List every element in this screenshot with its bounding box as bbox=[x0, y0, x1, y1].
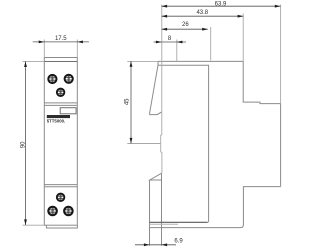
ext 43.8 right bbox=[242, 14, 244, 61]
side dark bottom line bbox=[150, 221, 208, 223]
arrow 43.8 right bbox=[238, 15, 244, 18]
front divider band lower bbox=[44, 185, 77, 187]
screw terminal top-middle bbox=[56, 88, 65, 96]
arrow 26 right bbox=[202, 28, 208, 31]
extension lines bbox=[23, 5, 281, 226]
ext 26 right bbox=[210, 27, 212, 61]
front view foot bbox=[46, 225, 77, 228]
screw terminal top-right bbox=[64, 74, 73, 83]
dim 8 line bbox=[154, 41, 187, 43]
side clip slider bbox=[150, 223, 179, 225]
arrow 63.9 left bbox=[162, 5, 168, 8]
SIEMENS label bar bbox=[47, 115, 70, 118]
front view body bbox=[44, 58, 77, 229]
svg-text:90: 90 bbox=[21, 141, 27, 148]
arrow 45 top bbox=[130, 61, 133, 67]
side right block top part bbox=[243, 61, 280, 104]
svg-text:26: 26 bbox=[182, 22, 189, 28]
ext 45 top bbox=[127, 60, 158, 62]
ext shared left / interior edge x=161.8 bbox=[161, 5, 162, 174]
arrow 17.5 right (outside, points left) bbox=[77, 41, 83, 44]
dim 17.5 line bbox=[33, 41, 89, 43]
dimension labels bbox=[21, 1, 227, 244]
svg-text:6.9: 6.9 bbox=[174, 239, 183, 245]
arrow 6.9 left (outside, points right) bbox=[144, 243, 150, 246]
side top edge bbox=[158, 60, 243, 62]
front divider band upper bbox=[44, 103, 77, 106]
svg-text:63.9: 63.9 bbox=[215, 1, 227, 7]
arrow 8 left (outside, points right) bbox=[156, 41, 162, 44]
svg-text:43.8: 43.8 bbox=[196, 10, 208, 16]
svg-text:17.5: 17.5 bbox=[55, 36, 67, 42]
arrow 90 top (inside, points up) bbox=[24, 61, 27, 67]
dim 6.9 line bbox=[135, 244, 176, 246]
screw terminal bottom-left bbox=[48, 206, 58, 216]
arrow 45 bottom bbox=[130, 138, 133, 144]
dim 43.8 line bbox=[162, 15, 244, 17]
arrow 43.8 left bbox=[162, 15, 168, 18]
arrow 8 right (outside, points left) bbox=[177, 41, 183, 44]
side clip notch triangle bbox=[150, 173, 162, 180]
arrow 90 bottom (inside, points down) bbox=[24, 219, 27, 225]
dimension lines bbox=[26, 6, 281, 245]
side right edge bbox=[280, 104, 282, 187]
side lower inner vertical / 6.9 extension bbox=[161, 173, 163, 246]
ext 8 right bbox=[176, 40, 178, 62]
ext 17.5 left bbox=[43, 40, 45, 58]
dim 90 line bbox=[25, 61, 27, 225]
screw terminal bottom-middle bbox=[56, 193, 65, 201]
arrow 6.9 right (outside, points left) bbox=[162, 243, 168, 246]
arrowheads bbox=[24, 5, 280, 246]
ext 45 bottom bbox=[127, 143, 160, 145]
ext 90 bottom bbox=[23, 224, 45, 226]
dim 26 line bbox=[162, 28, 208, 30]
label window bbox=[60, 108, 76, 114]
side left slant profile bbox=[150, 65, 162, 114]
ext 17.5 right bbox=[76, 40, 78, 58]
svg-text:5TT5000.: 5TT5000. bbox=[47, 119, 65, 124]
side second top line + front face vertical bbox=[158, 61, 209, 222]
dim 63.9 line bbox=[162, 5, 281, 7]
side view outline bbox=[150, 61, 281, 246]
arrow 63.9 right bbox=[275, 5, 281, 8]
screw terminal bottom-right bbox=[64, 206, 74, 216]
ext 63.9 right bbox=[280, 5, 282, 104]
front top inner line bbox=[44, 61, 77, 63]
arrow 26 left bbox=[162, 28, 168, 31]
side bottom edge bbox=[150, 187, 281, 228]
svg-text:8: 8 bbox=[168, 36, 172, 42]
svg-text:45: 45 bbox=[125, 98, 131, 105]
ext 90 top bbox=[23, 60, 45, 62]
dim 45 line bbox=[130, 61, 132, 143]
screw terminal top-left bbox=[48, 74, 57, 83]
arrow 17.5 left (outside, points right) bbox=[39, 41, 45, 44]
side clip outer edge bbox=[149, 180, 151, 246]
